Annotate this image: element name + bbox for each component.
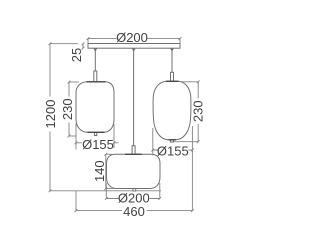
dim O155 left: line (76, 142, 119, 144)
cord grip right (171, 48, 174, 51)
dim 230 right: top extension (182, 81, 199, 83)
dim O155 left: ext verticals (76, 124, 114, 150)
lamp right bottom cap (169, 139, 177, 141)
svg-text:230: 230 (191, 100, 206, 122)
dim O200 bottom: ext left (105, 183, 107, 199)
dim 230 left: top extension (69, 81, 79, 83)
dim 460 ticks (75, 209, 194, 212)
cord grip middle (132, 48, 135, 51)
dim O200 bottom: ext right (159, 183, 161, 199)
dim 460: left extension (75, 191, 77, 211)
dim O200 bottom ticks (105, 197, 161, 200)
lamp shade right (153, 81, 191, 140)
dim 230 left ticks (68, 81, 71, 138)
lamp left nub (94, 132, 96, 135)
dim O155 left ticks (75, 141, 116, 144)
dim 230 left: bottom extension (69, 135, 76, 137)
dim 460: line (76, 210, 192, 212)
lamp middle top cap (125, 153, 142, 155)
lamp middle nub (133, 189, 136, 192)
dim O200 top ticks (87, 37, 182, 40)
lamp shade middle (107, 154, 161, 188)
dim O155 right: line (153, 149, 193, 151)
svg-text:1200: 1200 (43, 100, 58, 129)
wire cord left (94, 48, 96, 71)
dim 25 ticks (82, 42, 85, 49)
socket left (94, 71, 97, 82)
cord grip left (94, 48, 97, 51)
dim 230 left: line (68, 82, 70, 136)
canopy bar (88, 44, 180, 49)
dim O155 right ticks (151, 149, 193, 152)
dim 25 extension line (50, 43, 78, 45)
svg-text:25: 25 (69, 48, 84, 62)
svg-text:Ø155: Ø155 (82, 137, 114, 152)
dim 140: line (105, 154, 107, 188)
dim 1200: bottom extension (50, 190, 161, 192)
dim O155 right: ext verticals (153, 126, 193, 211)
dim 230 right: bottom extension (174, 141, 198, 143)
dim 140: top extension (106, 153, 112, 155)
dim 25 mini line (82, 44, 84, 49)
dim 230 right ticks (197, 80, 200, 143)
wire cord right (171, 48, 173, 72)
svg-text:140: 140 (92, 160, 107, 182)
dim 1200 ticks (49, 42, 52, 192)
dim O200 top extensions (88, 39, 180, 44)
lamp shade left (76, 82, 114, 133)
dim 1200: line (49, 44, 51, 191)
wire cord middle (133, 48, 135, 146)
lamp right top cap (166, 80, 179, 82)
dim 140 ticks (104, 153, 107, 190)
svg-text:230: 230 (60, 98, 75, 120)
socket middle (132, 146, 135, 155)
svg-text:Ø155: Ø155 (157, 144, 189, 159)
dim 140: bottom extension (106, 188, 116, 190)
lamp left bottom cap (88, 131, 105, 133)
dim O200 bottom: line (106, 198, 160, 200)
socket right (171, 72, 174, 81)
svg-text:Ø200: Ø200 (116, 30, 148, 45)
svg-text:460: 460 (123, 204, 145, 219)
lamp right nub (171, 140, 174, 142)
dim O200 top line (88, 38, 180, 40)
lamp left top cap (87, 81, 106, 83)
dim 230 right: line (197, 82, 199, 142)
